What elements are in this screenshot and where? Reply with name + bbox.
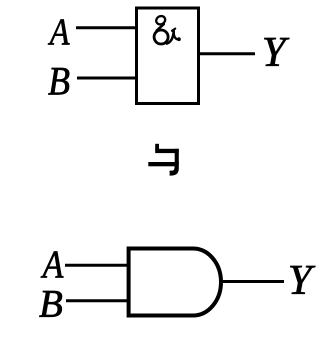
svg-text:A: A: [41, 242, 64, 286]
svg-text:B: B: [48, 59, 70, 103]
svg-text:A: A: [48, 11, 70, 53]
svg-text:Y: Y: [288, 257, 316, 304]
svg-text:Y: Y: [262, 29, 290, 76]
svg-text:B: B: [39, 283, 63, 326]
